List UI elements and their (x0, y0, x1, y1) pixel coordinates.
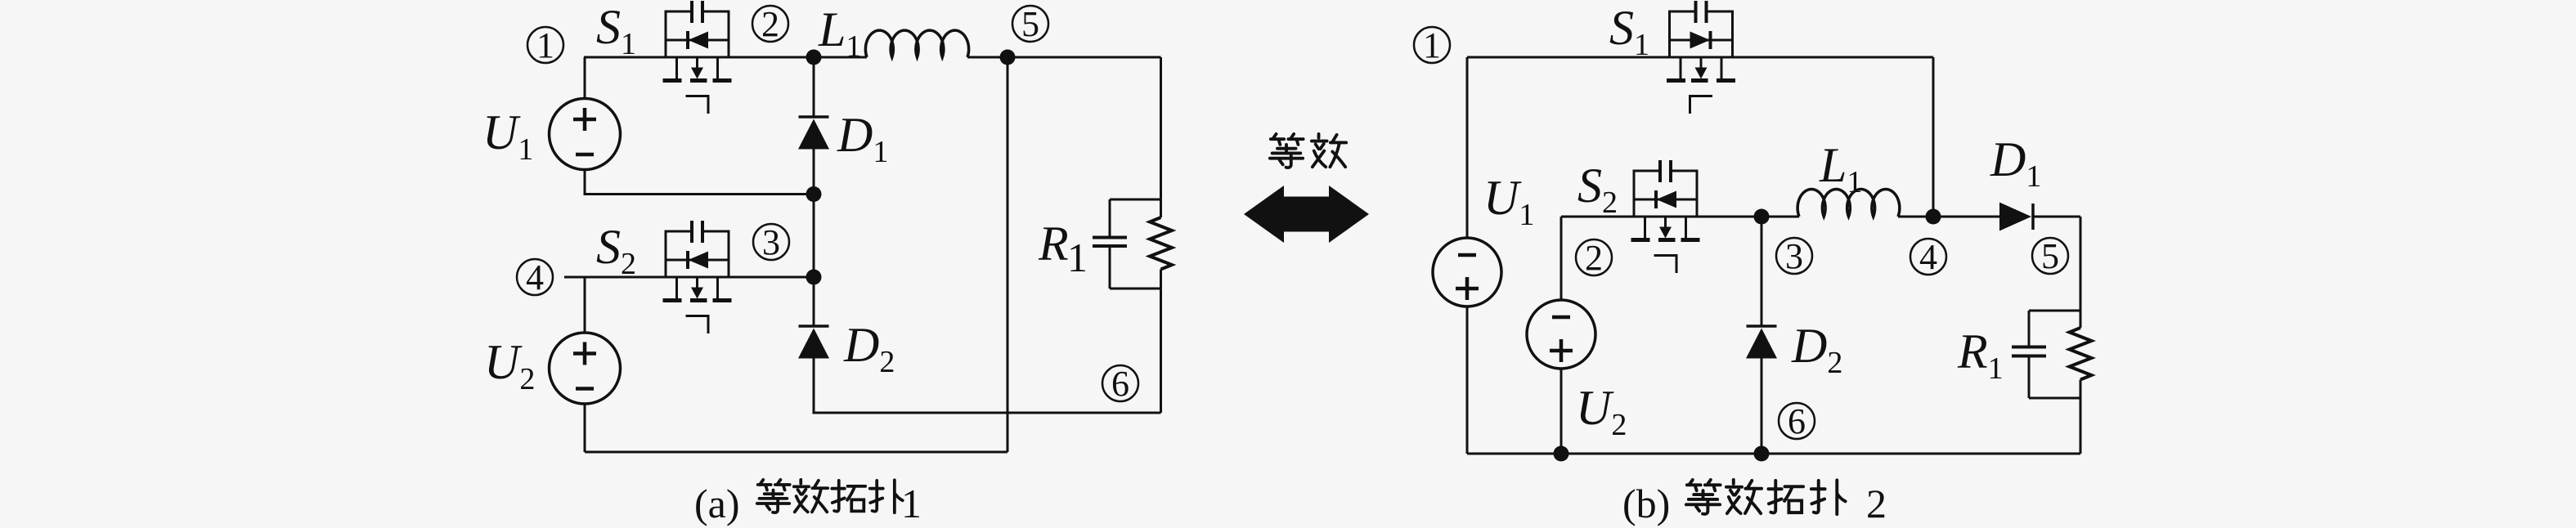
inductor L1 circuit a (865, 30, 968, 57)
node 6 circled circuit a (1102, 364, 1138, 404)
node 5 circled circuit b (2032, 236, 2068, 276)
wire D2 branch circuit b (1761, 217, 1763, 454)
svg-text:5: 5 (2041, 236, 2059, 276)
inductor L1 circuit b (1797, 189, 1900, 217)
svg-text:3: 3 (1785, 236, 1803, 276)
voltage source U1 circuit b (1433, 238, 1501, 307)
caption b (1622, 480, 1887, 526)
label dengxiao equivalence (1270, 134, 1346, 168)
node 5 circled circuit a (1012, 4, 1048, 44)
svg-text:4: 4 (1919, 237, 1937, 277)
mosfet switch S2 circuit b (1631, 160, 1700, 273)
resistor of load circuit a (1150, 217, 1172, 270)
svg-text:2: 2 (1585, 238, 1603, 278)
svg-text:6: 6 (1111, 364, 1129, 404)
caption a (694, 480, 922, 526)
svg-text:(b): (b) (1622, 481, 1670, 526)
load bars circuit a (1110, 199, 1161, 289)
mosfet switch S2 (663, 221, 732, 333)
svg-text:(a): (a) (694, 481, 740, 526)
wire U2 leads circuit b (1560, 217, 1563, 454)
node 3 junction dot circuit b (1754, 209, 1770, 225)
node 5 junction dot circuit a (1000, 50, 1016, 65)
capacitor of load circuit b (2012, 311, 2046, 398)
mosfet switch S1 circuit b (1667, 1, 1735, 114)
voltage source U2 (550, 333, 621, 404)
diode D1 (798, 117, 829, 150)
node 2 junction dot (806, 50, 822, 65)
wire right branch load circuit b (2080, 217, 2082, 454)
node 4 circled circuit a (517, 257, 553, 298)
double arrow equivalence (1244, 186, 1369, 243)
wire top rail circuit a (584, 56, 1161, 59)
capacitor of load circuit a (1093, 199, 1127, 289)
wire S2 row circuit b (1561, 216, 2080, 218)
diode D2 circuit b (1746, 326, 1777, 359)
mosfet switch S1 (663, 1, 732, 114)
node 1 circled (527, 25, 563, 65)
node 4 junction dot circuit b (1926, 209, 1941, 225)
wire U2 leads circuit a (584, 277, 586, 452)
junction dot U2 bottom circuit b (1554, 446, 1569, 462)
node 3 circled circuit b (1776, 236, 1812, 276)
wire bottom rail circuit b (1467, 453, 2080, 455)
svg-text:4: 4 (526, 257, 544, 298)
svg-text:1: 1 (901, 481, 922, 526)
wire U1 leads circuit b (1466, 57, 1469, 454)
node 4 circled circuit b (1910, 237, 1946, 277)
svg-text:1: 1 (536, 25, 554, 65)
svg-text:3: 3 (762, 222, 780, 262)
wire left branch U1 leads circuit a (585, 57, 814, 195)
node 1 circled circuit b (1414, 25, 1450, 65)
wire top rail circuit b (1467, 57, 1933, 217)
node 2 circled (752, 4, 788, 44)
resistor of load circuit b (2070, 328, 2092, 380)
diode D2 (798, 326, 829, 359)
node 3 junction dot (806, 270, 822, 285)
svg-text:5: 5 (1021, 4, 1039, 44)
svg-text:1: 1 (1067, 235, 1088, 280)
junction dot U1 minus to diode chain (806, 186, 822, 202)
node 2 circled circuit b (1576, 238, 1612, 278)
junction dot D2 bottom circuit b (1754, 446, 1770, 462)
node 6 circled circuit b (1779, 401, 1815, 441)
voltage source U1 (550, 99, 621, 170)
wire D1 branch circuit a (813, 57, 815, 326)
wire S2 row circuit a (564, 276, 814, 279)
wire right branch load circuit a (1160, 57, 1162, 413)
svg-text:2: 2 (1866, 481, 1887, 526)
wire outer bottom rail to node 5 circuit a (585, 57, 1008, 452)
svg-text:6: 6 (1788, 401, 1806, 441)
voltage source U2 circuit b (1527, 300, 1595, 369)
diode D1 circuit b (1999, 203, 2033, 231)
svg-text:2: 2 (761, 4, 779, 44)
node 3 circled circuit a (753, 222, 789, 262)
wire D2 to inner bottom rail circuit a (814, 357, 1161, 413)
svg-text:1: 1 (1423, 25, 1441, 65)
load bars circuit b (2029, 311, 2080, 398)
svg-text:R: R (1038, 217, 1069, 271)
